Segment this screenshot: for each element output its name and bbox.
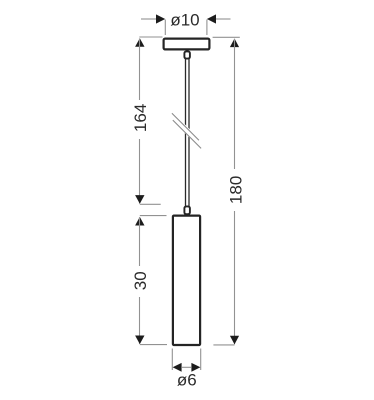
dimension 180 top extension line bbox=[213, 36, 240, 38]
dimension 30 top extension line bbox=[140, 215, 167, 217]
svg-text:180: 180 bbox=[226, 176, 245, 204]
dimension 164 line lower segment bbox=[139, 139, 141, 204]
dimension ø10 left extension line bbox=[164, 20, 166, 36]
svg-text:ø10: ø10 bbox=[170, 11, 199, 30]
lamp socket connector bbox=[184, 206, 190, 214]
dimension ø10 left arrow bbox=[156, 14, 165, 23]
dimension 30 top arrow bbox=[135, 217, 144, 226]
dimension ø10 right arrow bbox=[207, 14, 216, 23]
dimension 164 top arrow bbox=[135, 38, 144, 47]
dimension 180 line lower segment bbox=[234, 211, 236, 344]
canopy (ceiling plate) bbox=[164, 39, 210, 50]
dimension 164 bottom arrow bbox=[135, 195, 144, 204]
cable break slash lower bbox=[173, 120, 201, 148]
dimension ø6 right arrow bbox=[191, 363, 200, 372]
dimension ø6 right extension line bbox=[200, 349, 202, 371]
cable break slash upper bbox=[172, 113, 199, 140]
svg-text:ø6: ø6 bbox=[177, 371, 197, 390]
cable break symbol (white band) bbox=[170, 114, 202, 146]
cable (two conductors) bbox=[185, 59, 187, 206]
dimension ø10 left tail line bbox=[141, 18, 157, 20]
dimension ø10 right extension line bbox=[206, 20, 208, 36]
dimension 30 line upper segment bbox=[139, 217, 141, 266]
dimension 164 line upper segment bbox=[139, 39, 141, 101]
dimension 180 bottom arrow bbox=[230, 336, 239, 345]
dimension 180 top arrow bbox=[230, 39, 239, 48]
dimension 30 bottom arrow bbox=[135, 336, 144, 345]
dimension 180 bottom extension line bbox=[213, 344, 234, 346]
dimension ø6 left extension line bbox=[171, 349, 173, 371]
lamp cylinder shade bbox=[173, 216, 200, 345]
dimension 180 line upper segment bbox=[234, 39, 236, 169]
dimension ø6 connecting line bbox=[182, 366, 191, 368]
svg-text:164: 164 bbox=[131, 104, 150, 132]
dimension ø6 left arrow bbox=[173, 363, 182, 372]
dimension 30 bottom extension line bbox=[140, 344, 167, 346]
dimension 164 top extension line bbox=[139, 36, 162, 38]
svg-text:30: 30 bbox=[131, 271, 150, 290]
dimension 164 bottom extension line bbox=[140, 203, 161, 205]
cord grip below canopy bbox=[184, 51, 190, 58]
dimension 30 line lower segment bbox=[139, 297, 141, 344]
dimension ø10 right tail line bbox=[216, 18, 231, 20]
